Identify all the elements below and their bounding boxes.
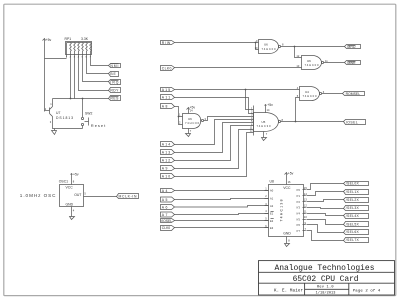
wire 74HC30.8 to IOSEL and U4.5 [281, 98, 344, 123]
ground (74HC30) [262, 132, 267, 141]
node /SEL0X [344, 181, 369, 185]
svg-text:Reset: Reset [91, 123, 106, 128]
svg-text:U6: U6 [188, 117, 192, 121]
svg-text:/SEL2X: /SEL2X [346, 198, 360, 202]
wire OSC OUT to MCLK-IN [84, 196, 117, 198]
svg-text:RES: RES [110, 96, 119, 100]
wire IOSEL to U8.E2 [175, 220, 269, 222]
resistor pack RP1 [66, 42, 92, 58]
svg-text:/SEL4X: /SEL4X [346, 214, 360, 218]
wire U8.Y1 to /SEL1X [307, 192, 344, 196]
node MCLK-IN [117, 194, 139, 199]
svg-text:/Y4: /Y4 [296, 212, 300, 216]
node BE [109, 72, 119, 77]
node A4 [161, 189, 175, 193]
power +5v (74HC30) [265, 103, 274, 113]
wire U8.Y0 to /SEL0X [307, 184, 344, 190]
svg-text:A5: A5 [162, 198, 168, 202]
nand gate U6 pins 1,2,3 [179, 109, 207, 134]
svg-text:A7: A7 [162, 213, 168, 217]
svg-text:GND: GND [66, 202, 74, 206]
node ROMSEL [343, 92, 365, 97]
wire A10 to 74HC30 pin12 [175, 133, 254, 177]
wire U6.8 to MRD and U6.12 [281, 46, 345, 58]
nand gate U4 pins 4,5,6 [297, 86, 325, 101]
node CLK0 [161, 66, 175, 71]
power +5v (top left) [43, 38, 52, 42]
power +5v (gate U6) [187, 106, 196, 114]
wire DS1813 pin3 to ground rail [53, 117, 83, 129]
node MWR [345, 61, 361, 66]
wire CLK0 to U8.E3 [175, 227, 269, 229]
svg-text:/SEL0X: /SEL0X [346, 181, 360, 185]
node A13 [161, 150, 175, 155]
svg-text:VCC: VCC [66, 185, 74, 189]
wire U8.Y7 to /SEL7X [307, 231, 344, 241]
node /SEL7X [344, 238, 369, 243]
svg-text:1/18/2013: 1/18/2013 [316, 291, 336, 296]
svg-text:OUT: OUT [74, 193, 81, 197]
wire A6 to U8.A2 [175, 206, 269, 208]
svg-text:+5v: +5v [46, 38, 52, 42]
svg-text:A12: A12 [162, 158, 171, 162]
svg-text:74HC00: 74HC00 [185, 121, 199, 125]
node CLK0 (decoder enable) [161, 226, 175, 231]
node A10 [161, 174, 175, 179]
svg-text:65C02 CPU Card: 65C02 CPU Card [293, 275, 359, 284]
wire R/W to U6 pins 9,10 [175, 42, 259, 50]
svg-text:RP1: RP1 [65, 37, 72, 41]
svg-text:BE: BE [110, 72, 116, 76]
switch SW2 Reset [81, 99, 106, 129]
node /SEL6X [344, 230, 369, 235]
svg-text:U8: U8 [270, 180, 274, 184]
ground (oscillator) [70, 207, 75, 220]
wire U8.Y3 to /SEL3X [307, 208, 344, 209]
svg-text:A2: A2 [270, 204, 274, 208]
nand gate U5 74HC30 [250, 106, 284, 136]
node RES [109, 96, 121, 101]
wire U8.Y2 to /SEL2X [307, 200, 344, 202]
svg-text:SW2: SW2 [85, 112, 92, 116]
wire DS1813 pin1 lead [52, 99, 54, 107]
node A14 [161, 142, 175, 147]
node R/W [161, 41, 175, 45]
svg-text:OSC1: OSC1 [59, 180, 68, 184]
ground (gate U6) [186, 129, 191, 137]
svg-text:IOSEL: IOSEL [346, 120, 358, 124]
node /SEL1X [344, 190, 369, 195]
wire CLK0 to U6 pin 13 [175, 67, 302, 69]
oscillator OSC1 [59, 180, 87, 213]
svg-text:/Y0: /Y0 [296, 188, 300, 192]
node A11 [161, 95, 175, 100]
svg-text:74HC00: 74HC00 [305, 63, 319, 67]
svg-text:A15: A15 [162, 88, 171, 92]
svg-text:/SEL7X: /SEL7X [346, 238, 360, 242]
node IRQ [109, 80, 121, 85]
svg-text:NMI: NMI [110, 64, 118, 68]
node /SEL3X [344, 206, 369, 211]
svg-text:/SEL6X: /SEL6X [346, 230, 360, 234]
svg-text:/Y2: /Y2 [296, 200, 300, 204]
wire A4 to U8.A0 [175, 190, 269, 192]
nand gate U6 pins 12,13,11 [296, 54, 328, 70]
power +5v (U8) [285, 172, 294, 185]
wire U8.Y6 to /SEL6X [307, 225, 344, 233]
wire RP1 pin3 to RES row [75, 58, 109, 99]
svg-text:A13: A13 [162, 150, 171, 154]
node MRD [345, 45, 361, 49]
wire +5v rail to RP1 and DS1813 pin2 [45, 42, 67, 112]
svg-text:/SEL5X: /SEL5X [346, 222, 360, 226]
svg-text:/SEL3X: /SEL3X [346, 206, 360, 210]
wire RP1 pin4 to RDY [79, 58, 109, 91]
svg-text:MCLK-IN: MCLK-IN [119, 195, 138, 199]
wire U4.6 to ROMSEL [322, 93, 343, 95]
svg-text:E2: E2 [270, 219, 274, 223]
svg-text:A10: A10 [162, 174, 171, 178]
svg-text:ROMSEL: ROMSEL [346, 92, 361, 96]
svg-text:A4: A4 [162, 189, 168, 193]
node /SEL2X [344, 198, 369, 203]
wire A15 to U4 pin4 and 74HC30 pin1 [175, 89, 300, 110]
wire A14 to 74HC30 pin4 [175, 120, 254, 145]
wire A8 to U6 pins 1,2 [175, 107, 183, 125]
svg-text:A0: A0 [270, 189, 274, 193]
node A9 [161, 166, 175, 171]
svg-text:74HC00: 74HC00 [303, 94, 317, 98]
ground (U8) [285, 237, 290, 247]
svg-text:U7: U7 [56, 111, 60, 115]
node A7 [161, 212, 175, 217]
svg-text:/SEL1X: /SEL1X [346, 190, 360, 194]
svg-text:E3: E3 [270, 226, 274, 230]
wire A5 to U8.A1 [175, 199, 269, 200]
svg-text:+5v: +5v [267, 103, 273, 107]
wire A12 to 74HC30 pin6 [175, 126, 254, 161]
svg-text:CLK0: CLK0 [162, 226, 171, 230]
wire RES row left to DS1813 pin1 [53, 98, 75, 100]
decoder U8 74HC138 [265, 180, 308, 243]
svg-text:74HC138: 74HC138 [280, 199, 284, 221]
svg-text:R/W: R/W [162, 41, 171, 45]
junction [82, 98, 84, 100]
svg-text:RDY: RDY [110, 89, 119, 93]
svg-text:K. E. Maier: K. E. Maier [274, 288, 303, 293]
wire U8.Y5 to /SEL5X [307, 220, 344, 225]
wire U6.3 to 74HC30 pin3 [204, 117, 254, 121]
svg-text:+5v: +5v [288, 172, 294, 176]
node A6 [161, 205, 175, 210]
svg-text:CLK0: CLK0 [162, 66, 172, 70]
title block [259, 261, 395, 295]
svg-text:A14: A14 [162, 142, 171, 146]
svg-text:+5v: +5v [73, 173, 79, 177]
wire RP1 pin7 to NMI [91, 58, 109, 66]
svg-text:/Y6: /Y6 [296, 223, 300, 227]
svg-text:/Y7: /Y7 [296, 229, 300, 233]
svg-text:A9: A9 [162, 166, 168, 170]
svg-text:/IOSEL: /IOSEL [161, 219, 172, 223]
svg-text:+5v: +5v [190, 106, 196, 110]
node NMI [109, 64, 121, 68]
node /SEL5X [344, 222, 369, 227]
svg-text:A11: A11 [162, 96, 171, 100]
node /SEL4X [344, 214, 369, 219]
wire A13 to 74HC30 pin5 [175, 123, 254, 153]
wire A9 to 74HC30 pin11 [175, 130, 254, 169]
wire DS1813 pin2 stub [45, 110, 50, 112]
node IOSEL (input) [161, 219, 175, 223]
node A5 [161, 197, 175, 202]
svg-text:IRQ: IRQ [110, 80, 118, 84]
junction [70, 98, 72, 100]
ground [52, 129, 57, 135]
wire U8.Y4 to /SEL4X [307, 214, 344, 216]
svg-text:/Y3: /Y3 [296, 206, 300, 210]
wire RP1 pin6 to BE [87, 58, 109, 74]
svg-text:Page 2 of 4: Page 2 of 4 [353, 288, 381, 293]
svg-text:A8: A8 [162, 104, 168, 108]
svg-text:GND: GND [283, 231, 291, 235]
node A15 [161, 88, 175, 92]
svg-text:VCC: VCC [283, 186, 291, 190]
svg-text:A6: A6 [162, 205, 168, 209]
svg-text:DS1813: DS1813 [56, 116, 73, 120]
svg-text:Analogue Technologies: Analogue Technologies [275, 264, 375, 273]
svg-text:Rev 1.0: Rev 1.0 [317, 286, 334, 290]
svg-text:74HC00: 74HC00 [262, 47, 276, 51]
svg-text:1.0MHz OSC: 1.0MHz OSC [20, 193, 56, 198]
svg-text:/Y1: /Y1 [296, 194, 300, 198]
wire RP1 pin2 down to RES row [70, 58, 72, 99]
node A12 [161, 158, 175, 163]
wire A11 to 74HC30 pin2 [175, 98, 254, 114]
nand gate U6 pins 9,10,8 [255, 39, 284, 54]
svg-text:A1: A1 [270, 196, 274, 200]
node IOSEL (output) [344, 120, 366, 125]
power +5v (oscillator) [71, 173, 79, 185]
node RDY [109, 88, 121, 93]
svg-text:74HC30: 74HC30 [257, 124, 271, 128]
wire U6.11 to MWR [324, 62, 345, 64]
wire A7 to U8.E1 [175, 214, 269, 215]
svg-text:/Y5: /Y5 [296, 217, 300, 221]
node A8 [161, 104, 175, 109]
wire RP1 pin5 to IRQ [83, 58, 109, 82]
supervisor U7 DS1813 [45, 102, 73, 124]
svg-text:E1: E1 [270, 211, 274, 215]
svg-text:3.3K: 3.3K [81, 37, 89, 41]
